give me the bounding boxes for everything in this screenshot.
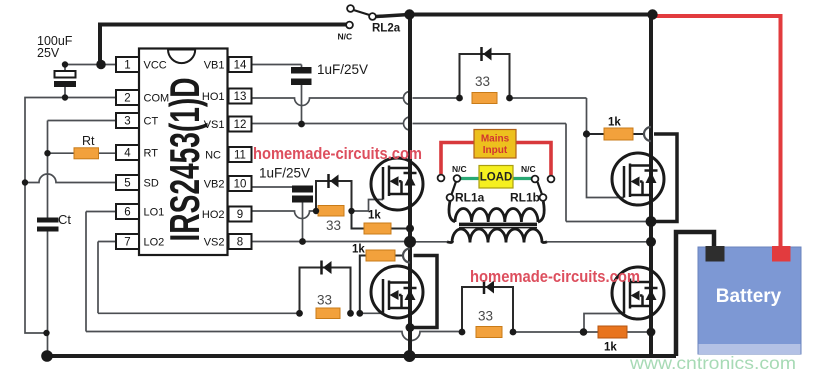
relay contact RL1a <box>438 175 461 201</box>
svg-text:1k: 1k <box>604 342 617 354</box>
watermark: www.cntronics.com <box>629 353 796 373</box>
WIRES-THIN <box>25 65 651 341</box>
wire: transformer secondary left end to left mid node <box>410 241 447 243</box>
label: RL1a <box>455 191 485 205</box>
svg-text:10: 10 <box>234 179 247 191</box>
label: Rt <box>82 134 95 148</box>
node: top-left 33 network left <box>313 208 319 214</box>
node: bottom-right gate / 1k <box>580 328 588 336</box>
resistor Rt <box>74 148 99 159</box>
IC pin boxes right: pins 14-8 <box>229 57 252 249</box>
node: right rail top <box>647 9 657 19</box>
wire: VB2 pin10 to bootstrap cap C3 <box>252 186 292 188</box>
svg-text:1k: 1k <box>368 210 381 222</box>
node: CT-RT junction <box>44 150 50 156</box>
transistor Q1 MOSFET top-left <box>371 158 423 210</box>
wire: top-left gate to 1k pulldown <box>352 211 411 229</box>
relay RL2a changeover contact <box>346 5 409 28</box>
svg-text:SD: SD <box>144 178 159 190</box>
node: bottom-right 33 network right <box>510 329 517 336</box>
svg-text:8: 8 <box>237 237 243 249</box>
wire: LO2 pin7 left, down, right to bottom-left gate network <box>98 242 300 314</box>
gate network top-right: legs and diode D1 <box>460 47 510 98</box>
svg-text:N/C: N/C <box>338 32 353 42</box>
node: top 33 network right <box>506 95 513 102</box>
wire: ground bus <box>45 354 676 358</box>
capacitor C3 1uF/25V bootstrap <box>292 186 313 203</box>
capacitor Ct <box>37 218 59 357</box>
svg-text:33: 33 <box>478 309 493 324</box>
wire: left bridge rail <box>408 15 412 357</box>
svg-text:25V: 25V <box>37 46 60 60</box>
svg-text:homemade-circuits.com: homemade-circuits.com <box>253 145 422 163</box>
resistor 1k (top-left pulldown) <box>364 223 391 234</box>
label: RL1b <box>510 191 540 205</box>
svg-text:N/C: N/C <box>452 164 467 174</box>
wire: hook of bottom-left 1k over left rail <box>403 249 410 263</box>
wire: COM pin2 left, down, to Ct bottom junction <box>25 98 116 334</box>
transformer secondary bottom winding <box>447 241 453 242</box>
wire: red battery positive from top node to battery <box>655 16 781 247</box>
IC pin boxes left: pins 1-7 <box>116 57 139 249</box>
wire: top-right gate lead down from 1k node to MOSFET Q2 gate <box>587 134 625 198</box>
IC pin numbers left <box>124 60 131 249</box>
svg-text:VB2: VB2 <box>204 179 225 191</box>
node: COM-Ct junction <box>43 330 49 336</box>
wire: VS2 pin8 right to left bridge mid node <box>252 241 410 243</box>
wire: bottom-right network to gate node and 1k <box>513 331 651 333</box>
node: left rail bottom-left MOSFET source <box>406 323 415 332</box>
wire: bottom-left gate lead to MOSFET Q3 gate <box>360 306 383 313</box>
IC pin labels <box>144 60 170 249</box>
label: 1uF/25V bottom <box>259 166 310 181</box>
wire: C2 bootstrap cap leg down to VS1 <box>301 85 303 124</box>
svg-text:1uF/25V: 1uF/25V <box>317 62 368 77</box>
wire: HO2 pin9 right with dip under C3 leg to top-left gate network <box>252 211 316 219</box>
node: left bridge mid <box>404 236 416 248</box>
svg-text:RL1a: RL1a <box>455 191 485 205</box>
wire: CT pin3 left and down to RT junction and Ct cap <box>48 121 117 218</box>
gate network bottom-right: legs and diode D4 <box>462 280 513 332</box>
node: top-right gate / 1k <box>583 130 590 137</box>
wire: transformer secondary right end to right mid node <box>547 241 651 243</box>
label: N/C of RL1a <box>452 164 467 174</box>
svg-text:HO2: HO2 <box>202 209 225 221</box>
svg-text:12: 12 <box>234 119 247 131</box>
node: left rail top <box>404 9 414 19</box>
svg-text:www.cntronics.com: www.cntronics.com <box>629 353 796 373</box>
node: cap C1 top <box>62 61 68 67</box>
svg-text:LO2: LO2 <box>144 237 165 249</box>
resistor 1k (bottom-left pulldown) <box>366 250 395 261</box>
wire: battery negative lead <box>676 232 714 356</box>
capacitor C1 100uF/25V electrolytic <box>54 65 76 98</box>
svg-text:CT: CT <box>144 116 159 128</box>
svg-text:HO1: HO1 <box>202 91 225 103</box>
wire: hook of top-right 1k over right rail <box>644 127 651 141</box>
relay contact RL1b <box>532 176 555 201</box>
wire: bottom-right gate lead to MOSFET Q4 gate <box>584 314 624 333</box>
svg-text:Mains: Mains <box>481 134 510 145</box>
label: 33 top-left network <box>326 218 341 233</box>
svg-text:33: 33 <box>317 293 332 308</box>
node: right mid transformer <box>646 237 656 247</box>
svg-text:33: 33 <box>475 74 490 89</box>
node: top-left 1k at rail <box>406 225 414 233</box>
wire: LO1 pin6 left, down, right along bottom with hop over left rail <box>86 212 462 341</box>
label: 33 bottom-left network <box>317 293 332 308</box>
wire: bottom-left 1k right lead to hook <box>395 255 404 257</box>
svg-text:14: 14 <box>234 60 247 72</box>
svg-text:RL2a: RL2a <box>372 23 401 35</box>
node: SD-COM junction <box>22 179 28 185</box>
svg-text:VCC: VCC <box>144 60 167 72</box>
resistor 1k (bottom-right pulldown) <box>598 326 627 338</box>
wire: top-right 1k detour to source node <box>654 134 677 222</box>
battery B1 <box>698 246 801 354</box>
node: top 33 network left <box>456 95 463 102</box>
watermark: homemade-circuits.com lower <box>470 268 640 286</box>
node: bottom-right 33 network left <box>459 329 466 336</box>
svg-text:Rt: Rt <box>82 134 95 148</box>
svg-text:RL1b: RL1b <box>510 191 540 205</box>
node: bottom-right 1k at rail <box>647 328 656 337</box>
node: ground bus left <box>41 350 53 362</box>
label: N/C of RL2a <box>338 32 353 42</box>
WIRES-THICK <box>45 15 714 357</box>
wire: VCC pin1 to 100uF cap top <box>65 64 116 66</box>
svg-text:RT: RT <box>144 148 159 160</box>
svg-text:Input: Input <box>483 145 508 156</box>
svg-text:6: 6 <box>124 207 130 219</box>
wire: right bridge rail <box>649 15 653 357</box>
gate network top-left: legs and diode D2 <box>316 174 352 211</box>
svg-text:5: 5 <box>124 178 130 190</box>
wire: top-right 1k leads <box>587 133 646 135</box>
transformer T1 <box>447 201 547 243</box>
resistor 33 (bottom-right gate) <box>476 327 502 338</box>
wire: thick VCC supply from node up and right to relay RL2a N/C <box>100 25 346 65</box>
label: 1k top-right <box>608 117 621 129</box>
label: 100uF 25V <box>37 34 73 60</box>
label: 1k bottom-left <box>352 244 365 256</box>
svg-text:NC: NC <box>205 150 221 162</box>
label: 33 top-right network <box>475 74 490 89</box>
svg-text:13: 13 <box>234 91 247 103</box>
label: RL2a <box>372 23 401 35</box>
svg-text:1: 1 <box>124 60 130 72</box>
resistor 1k (top-right pulldown) <box>604 128 633 140</box>
svg-text:11: 11 <box>234 150 246 162</box>
resistor 33 (bottom-left gate) <box>316 308 340 319</box>
svg-text:2: 2 <box>124 93 130 105</box>
node: bottom-left 33 network left <box>296 310 303 317</box>
gate network bottom-left: legs and diode D3 <box>300 261 351 314</box>
transistor Q2 MOSFET top-right <box>612 153 664 205</box>
watermark: homemade-circuits.com upper <box>253 145 422 163</box>
label: 1k bottom-right <box>604 342 617 354</box>
label: 33 bottom-right network <box>478 309 493 324</box>
svg-text:VS2: VS2 <box>204 237 225 249</box>
node: C2 leg on VS1 <box>298 121 305 128</box>
resistor 33 (top-left gate) <box>318 206 344 217</box>
wire: thick positive rail top run <box>409 13 653 17</box>
svg-text:LOAD: LOAD <box>480 172 513 184</box>
svg-text:3: 3 <box>124 116 130 128</box>
wire: C3 bootstrap cap leg down to VS2 <box>302 203 304 242</box>
svg-text:1k: 1k <box>352 244 365 256</box>
wire: HO1 pin13 right with dip under C2 leg, hop over left rail, to top 33 network and down to top-right gate node <box>252 92 587 135</box>
svg-text:7: 7 <box>124 237 130 249</box>
svg-text:4: 4 <box>124 148 131 160</box>
node: bottom-left 33 network right <box>347 310 354 317</box>
node: right mid VS1 <box>646 216 657 227</box>
node: top-left 33 network right <box>348 208 354 214</box>
wire: bottom-left gate node to 1k feed <box>360 256 366 314</box>
label: 1uF/25V top <box>317 62 368 77</box>
wire: top-left gate lead from network to MOSFET Q1 gate <box>352 200 384 212</box>
svg-text:N/C: N/C <box>521 164 536 174</box>
IC pin numbers right <box>234 60 247 249</box>
transformer primary top winding <box>449 201 455 222</box>
label: Ct <box>58 212 71 227</box>
svg-text:LO1: LO1 <box>144 207 165 219</box>
wire: VB1 pin14 to bootstrap cap C2 <box>252 65 302 68</box>
node: bottom-left gate branch <box>356 310 363 317</box>
LOAD box with green wires <box>460 166 533 189</box>
svg-text:VS1: VS1 <box>204 119 225 131</box>
svg-text:9: 9 <box>237 209 243 221</box>
op-amp/driver IC U1 IRS2453(1)D <box>139 49 228 256</box>
transistor Q3 MOSFET bottom-left <box>371 266 423 318</box>
svg-text:VB1: VB1 <box>204 60 225 72</box>
node: VCC thick junction <box>96 60 106 70</box>
label: N/C of RL1b <box>521 164 536 174</box>
transistor Q4 MOSFET bottom-right <box>612 267 664 319</box>
svg-text:33: 33 <box>326 218 341 233</box>
svg-text:COM: COM <box>144 93 170 105</box>
node: C3 leg on VS2 <box>299 238 306 245</box>
svg-text:Battery: Battery <box>716 286 782 307</box>
wire: VS1 pin12 right, hop over left rail, down at x566, to right mid node <box>252 117 651 222</box>
capacitor C2 1uF/25V bootstrap <box>291 67 312 85</box>
svg-text:homemade-circuits.com: homemade-circuits.com <box>470 268 640 286</box>
Mains Input box with red wires <box>441 130 551 176</box>
resistor 33 (top-right gate) <box>472 93 497 104</box>
svg-text:Ct: Ct <box>58 212 71 227</box>
svg-text:1k: 1k <box>608 117 621 129</box>
svg-text:1uF/25V: 1uF/25V <box>259 166 310 181</box>
wire: bottom-left 1k detour to source node <box>412 256 437 328</box>
node: left rail at ground bus <box>404 350 416 362</box>
label: 1k top-left <box>368 210 381 222</box>
transformer core <box>459 223 537 226</box>
wire: RT pin4 line through Rt resistor <box>48 152 117 154</box>
node: cap C1 bottom on COM <box>62 94 68 100</box>
wire: SD pin5 left with hop over CT vertical to COM vertical <box>25 174 116 183</box>
